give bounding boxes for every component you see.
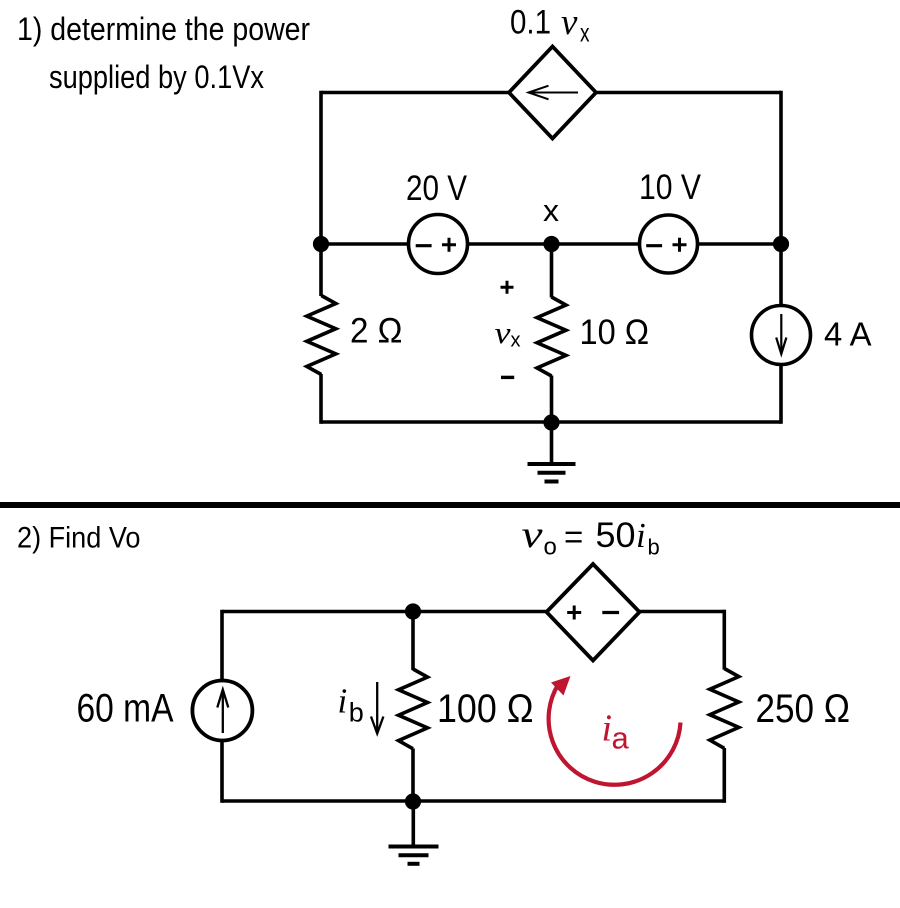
svg-text:1) determine the power: 1) determine the power (17, 11, 310, 47)
svg-text:=: = (564, 518, 583, 555)
wire: circuit1 middle horizontal right segment (698, 242, 782, 246)
vx label (495, 315, 521, 352)
section divider bar (0, 502, 900, 508)
svg-text:4 A: 4 A (824, 316, 872, 353)
svg-text:2 Ω: 2 Ω (350, 312, 403, 351)
4A arrow (down) (776, 314, 786, 354)
60mA arrow (up) (217, 690, 228, 734)
20V polarity marks (416, 238, 456, 252)
polarity marks inside diamond (567, 606, 619, 620)
wire: circuit1 bottom horizontal (321, 420, 781, 424)
10V polarity marks (646, 238, 686, 252)
wire: circuit2 right vertical below 250ohm (722, 748, 726, 803)
svg-text:v: v (495, 315, 511, 350)
voltage source 10V (circle) (640, 215, 698, 273)
resistor R 10ohm zigzag (537, 297, 566, 376)
wire: circuit2 top-left horizontal (222, 610, 547, 614)
wire: circuit1 left vertical (above 2ohm) (319, 91, 323, 296)
resistor R 100ohm zigzag (399, 669, 428, 749)
svg-text:10 Ω: 10 Ω (580, 313, 650, 352)
svg-text:i: i (338, 682, 348, 721)
wire: 100ohm branch lower lead (411, 749, 415, 802)
resistor R 250ohm zigzag (710, 669, 739, 749)
svg-text:b: b (648, 535, 660, 560)
svg-text:b: b (349, 698, 364, 728)
junction dot circuit2 top (405, 603, 421, 619)
wire: circuit2 left vertical below 60mA (220, 740, 224, 803)
wire: circuit1 middle horizontal center segment (468, 242, 640, 246)
svg-text:i: i (636, 516, 646, 555)
current source 60mA (circle) (192, 681, 252, 741)
svg-text:60 mA: 60 mA (77, 687, 174, 731)
wire: 10ohm branch lower lead (550, 376, 554, 423)
wire: circuit2 left vertical above 60mA (220, 610, 224, 681)
ground symbol circuit1 (528, 423, 576, 482)
resistor R 2ohm zigzag (307, 296, 336, 375)
vx minus mark (501, 376, 514, 379)
junction dot node X (543, 236, 559, 252)
junction dot circuit2 bottom (ground node) (405, 793, 421, 809)
wire: 10ohm branch upper lead (550, 244, 554, 298)
svg-text:20 V: 20 V (406, 169, 468, 208)
ground symbol circuit2 (389, 802, 439, 864)
wire: circuit1 top-left horizontal (321, 91, 510, 95)
svg-text:a: a (612, 721, 630, 756)
label ib (338, 682, 364, 728)
label 0.1vx (510, 2, 590, 48)
svg-text:100 Ω: 100 Ω (437, 687, 534, 731)
voltage source 20V (circle) (409, 215, 468, 274)
arrow inside dependent source (pointing left) (529, 86, 579, 100)
wire: circuit1 middle horizontal left segment (321, 242, 409, 246)
ib current arrow (down) (371, 682, 383, 734)
svg-text:supplied by 0.1Vx: supplied by 0.1Vx (49, 59, 264, 95)
wire: circuit2 bottom horizontal (222, 799, 724, 803)
vx plus mark (501, 281, 514, 294)
svg-text:2) Find Vo: 2) Find Vo (17, 522, 141, 555)
current source 4A (circle) (752, 306, 811, 365)
mesh current ia arc (red) (549, 676, 681, 785)
svg-text:10 V: 10 V (639, 168, 702, 207)
wire: circuit1 right vertical below 4A (779, 365, 783, 424)
svg-text:50: 50 (596, 516, 636, 555)
svg-text:i: i (602, 708, 613, 750)
junction dot bottom (ground node) (543, 414, 559, 430)
svg-text:v: v (522, 514, 543, 556)
label v0 = 50 ib (dependent source value) (522, 514, 660, 561)
svg-text:0.1: 0.1 (510, 4, 551, 42)
svg-text:o: o (544, 534, 557, 561)
svg-text:x: x (511, 330, 521, 352)
svg-text:x: x (580, 18, 590, 48)
svg-text:v: v (561, 2, 578, 43)
label ia (red) (602, 708, 630, 756)
svg-text:250 Ω: 250 Ω (756, 687, 851, 731)
junction dot left-middle (313, 236, 329, 252)
wire: circuit1 left vertical (below 2ohm) (319, 374, 323, 424)
wire: circuit2 right vertical above 250ohm (722, 610, 726, 670)
dependent source 0.1vx (diamond) (509, 47, 596, 139)
junction dot right-middle (773, 236, 789, 252)
wire: circuit1 right vertical above 4A (779, 91, 783, 306)
dependent source vo=50ib (diamond) (547, 564, 640, 661)
wire: circuit2 top-right horizontal (639, 610, 724, 614)
wire: 100ohm branch upper lead (411, 612, 415, 671)
wire: circuit1 top-right horizontal (595, 91, 781, 95)
svg-text:x: x (543, 193, 560, 228)
